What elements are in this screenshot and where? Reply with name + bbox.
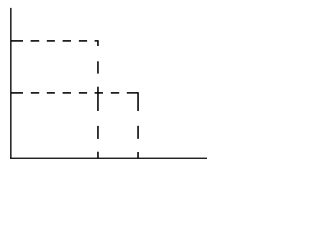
y-axis xyxy=(10,8,12,159)
dashed level-1 horizontal (y=40.9) xyxy=(11,41,98,46)
x-axis xyxy=(10,157,207,159)
corner at (98,41) xyxy=(95,41,98,46)
dashed drop line x=138 xyxy=(137,126,139,159)
dashed drop line x=98 xyxy=(97,61,99,158)
dashed level-2 horizontal (y=92.9) xyxy=(11,93,138,111)
corner at (138,93) xyxy=(127,93,138,111)
